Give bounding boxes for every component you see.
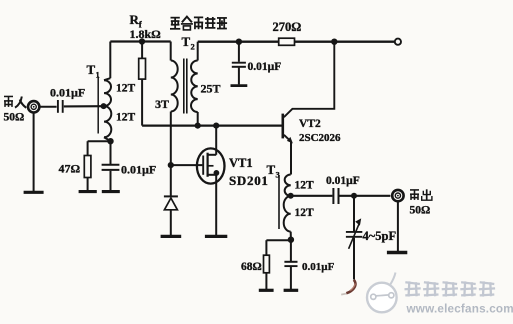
svg-text:www.elecfans.com: www.elecfans.com xyxy=(406,302,513,315)
svg-text:50Ω: 50Ω xyxy=(410,204,431,216)
svg-text:0.01µF: 0.01µF xyxy=(50,86,85,100)
svg-text:3: 3 xyxy=(276,170,280,180)
svg-text:VT2: VT2 xyxy=(299,118,321,130)
svg-text:68Ω: 68Ω xyxy=(241,261,262,273)
svg-text:12T: 12T xyxy=(116,83,136,95)
svg-text:T: T xyxy=(182,34,191,49)
svg-text:12T: 12T xyxy=(295,180,315,192)
svg-text:270Ω: 270Ω xyxy=(273,20,302,34)
svg-text:T: T xyxy=(87,62,96,77)
svg-text:SD201: SD201 xyxy=(229,173,269,188)
svg-text:50Ω: 50Ω xyxy=(4,111,25,123)
svg-text:1: 1 xyxy=(96,70,100,80)
svg-text:12T: 12T xyxy=(295,207,315,219)
svg-text:25T: 25T xyxy=(201,82,221,96)
svg-text:3T: 3T xyxy=(155,97,169,111)
svg-text:2SC2026: 2SC2026 xyxy=(299,132,341,144)
svg-text:T: T xyxy=(267,162,276,177)
svg-text:0.01µF: 0.01µF xyxy=(121,163,156,177)
svg-text:4~5pF: 4~5pF xyxy=(363,229,397,243)
svg-text:12T: 12T xyxy=(116,112,136,124)
svg-text:1.8kΩ: 1.8kΩ xyxy=(130,27,162,41)
svg-text:47Ω: 47Ω xyxy=(59,162,81,176)
svg-text:2: 2 xyxy=(191,42,195,52)
svg-text:0.01µF: 0.01µF xyxy=(326,175,360,187)
svg-text:0.01µF: 0.01µF xyxy=(248,61,282,73)
svg-text:VT1: VT1 xyxy=(229,156,253,170)
svg-text:0.01µF: 0.01µF xyxy=(302,261,335,273)
